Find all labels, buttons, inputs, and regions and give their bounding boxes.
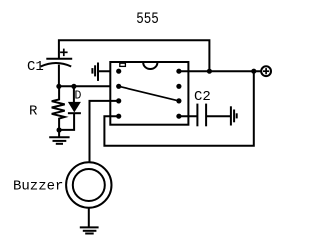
ground (below R and D) [49,130,69,144]
ground (below buzzer) [80,227,99,233]
wire buzzer to ground [88,208,90,228]
svg-text:R: R [29,103,38,119]
pin 6 right dot [176,98,181,103]
capacitor C1 [41,49,72,87]
wire pin 8 to plus terminal [179,70,261,72]
pin 5 right dot [176,114,181,119]
pin 2 left dot [116,84,121,89]
node junction R/D ground [57,127,62,132]
resistor R [52,86,65,130]
node junction C1/R [56,84,61,89]
wire top rail from C1 top to VCC drop [59,40,210,71]
node junction D [71,84,76,89]
svg-text:Buzzer: Buzzer [13,178,63,194]
ground (rotated, right of C2) [231,106,237,125]
buzzer [66,162,111,207]
node junction top rail [207,69,212,74]
capacitor C2 [197,104,206,127]
pin 1 left dot [116,69,121,74]
wire pin1 to ground [98,70,119,72]
wire node row to pin 2 [59,85,119,87]
ground (rotated, at pin 1 left) [92,63,98,81]
svg-text:C1: C1 [27,59,44,75]
plus supply terminal [261,66,271,76]
svg-text:555: 555 [136,10,159,28]
svg-text:D: D [75,90,82,103]
node junction V+ loop [251,69,256,74]
IC U1 555 timer body [110,62,188,125]
wire pin 5 to C2 [179,115,198,117]
pin 3 left dot [116,98,121,103]
wire pin 4 loop to V+ rail [104,71,253,146]
pin 7 right dot [176,84,181,89]
pin 4 left dot [116,114,121,119]
pin 8 right dot [176,69,181,74]
diode D [59,86,81,130]
wire pin 3 to buzzer [90,101,119,162]
wire C2 to ground [206,115,231,117]
internal link pin2 to pin6 [119,86,179,101]
svg-text:C2: C2 [194,89,211,105]
